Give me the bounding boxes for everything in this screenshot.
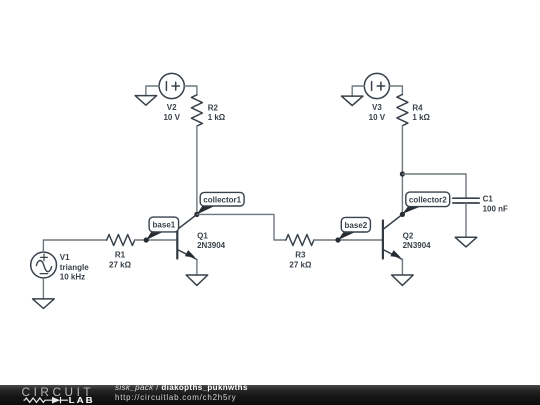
resistor R4 <box>397 95 408 126</box>
credits text <box>115 384 248 392</box>
svg-text:10 kHz: 10 kHz <box>60 272 85 281</box>
svg-text:triangle: triangle <box>60 263 89 272</box>
label R2 value <box>208 103 226 122</box>
voltage source V1 <box>31 252 57 278</box>
wire junction to C1 <box>402 174 466 198</box>
ground V1 <box>33 299 55 309</box>
label Q1 value <box>197 231 226 250</box>
node base1 flag <box>146 217 178 240</box>
svg-text:Q2: Q2 <box>403 231 414 240</box>
svg-text:R2: R2 <box>208 103 219 112</box>
wire R1 to Q1 base <box>135 239 178 241</box>
wire Q2 emitter to ground <box>401 260 403 276</box>
label V3 value <box>369 103 386 122</box>
resistor R3 <box>286 235 314 246</box>
svg-text:collector2: collector2 <box>409 195 447 204</box>
svg-text:R4: R4 <box>412 103 423 112</box>
node collector2 flag <box>402 192 449 214</box>
node base2 flag <box>338 217 370 240</box>
ground Q2 <box>392 275 414 285</box>
wire R2 to collector1 <box>196 126 198 214</box>
label R4 value <box>412 103 430 122</box>
wire V2 to R2 <box>184 86 197 95</box>
svg-text:2N3904: 2N3904 <box>403 241 432 250</box>
svg-text:27 kΩ: 27 kΩ <box>109 260 132 269</box>
svg-text:collector1: collector1 <box>203 195 241 204</box>
svg-text:base1: base1 <box>153 221 176 230</box>
node collector2 dot <box>400 212 405 217</box>
ground C1 <box>455 237 477 247</box>
label C1 value <box>483 195 508 214</box>
label R3 value <box>289 251 312 270</box>
resistor R2 <box>191 95 202 126</box>
wire V3 left <box>352 86 364 96</box>
svg-text:2N3904: 2N3904 <box>197 241 226 250</box>
ground Q1 <box>186 275 208 285</box>
wire R3 to Q2 base <box>314 239 383 241</box>
label Q2 value <box>403 231 432 250</box>
svg-text:1 kΩ: 1 kΩ <box>412 113 430 122</box>
svg-text:V3: V3 <box>372 103 382 112</box>
svg-text:R1: R1 <box>115 251 126 260</box>
voltage source V3 <box>364 73 389 98</box>
svg-text:Q1: Q1 <box>197 231 208 240</box>
wire V1 to R1 <box>43 240 106 252</box>
ground V3 <box>341 96 363 105</box>
svg-text:base2: base2 <box>345 221 368 230</box>
wire Q1 emitter to ground <box>196 260 198 276</box>
label V1 value <box>60 253 89 281</box>
svg-text:10 V: 10 V <box>163 113 180 122</box>
svg-text:1 kΩ: 1 kΩ <box>208 113 226 122</box>
wire collector1 to R3 <box>197 214 286 240</box>
label R1 value <box>109 251 132 270</box>
node base2 dot <box>335 237 340 242</box>
voltage source V2 <box>159 73 184 98</box>
wire V1 bottom <box>42 278 44 299</box>
svg-text:100 nF: 100 nF <box>483 204 508 213</box>
CircuitLab logo <box>0 384 110 405</box>
junction node C1 branch <box>400 171 405 176</box>
svg-text:R3: R3 <box>295 251 306 260</box>
label V2 value <box>163 103 180 122</box>
node collector1 dot <box>194 212 199 217</box>
resistor R1 <box>107 235 135 246</box>
svg-text:V1: V1 <box>60 253 70 262</box>
svg-text:V2: V2 <box>167 103 177 112</box>
wire C1 to ground <box>465 203 467 237</box>
wire V3 to R4 <box>390 86 403 95</box>
node collector1 flag <box>197 192 244 214</box>
svg-text:LAB: LAB <box>69 396 95 405</box>
ground V2 <box>135 96 157 106</box>
svg-text:27 kΩ: 27 kΩ <box>289 260 312 269</box>
wire R4 to collector2 <box>401 126 403 215</box>
footer bar <box>0 385 540 405</box>
svg-text:10 V: 10 V <box>369 113 386 122</box>
wire V2 left <box>146 86 159 96</box>
transistor Q1 <box>177 214 197 259</box>
svg-text:C1: C1 <box>483 195 494 204</box>
transistor Q2 <box>383 214 403 259</box>
capacitor C1 <box>453 198 479 203</box>
node base1 dot <box>144 237 149 242</box>
